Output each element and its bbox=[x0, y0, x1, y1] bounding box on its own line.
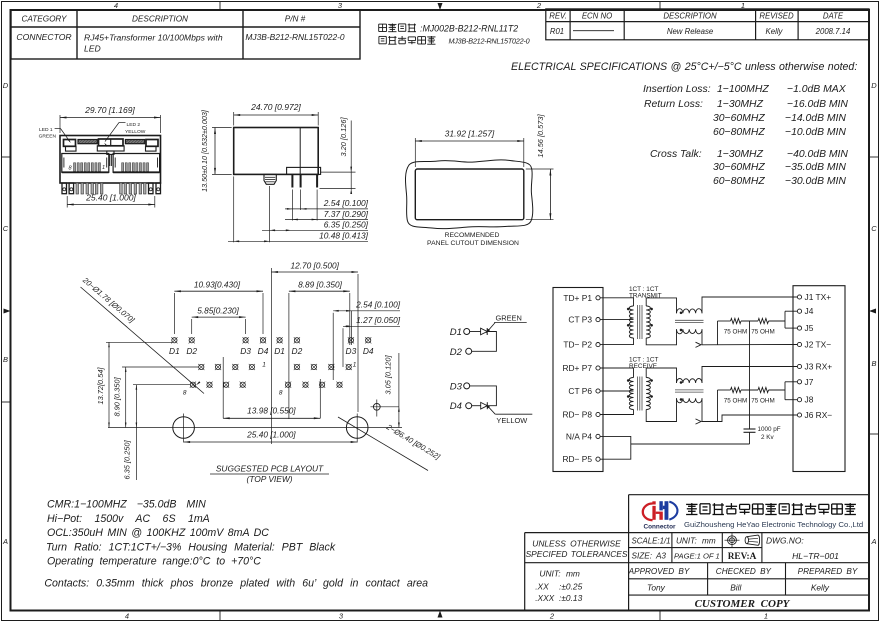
svg-text:SPECIFED TOLERANCES: SPECIFED TOLERANCES bbox=[526, 549, 628, 559]
transformer T2 core bbox=[637, 377, 639, 411]
svg-text:N/A P4: N/A P4 bbox=[566, 431, 592, 441]
svg-text:RD+ P7: RD+ P7 bbox=[562, 363, 592, 373]
svg-text:Tony: Tony bbox=[647, 583, 666, 593]
svg-text:GREEN: GREEN bbox=[39, 134, 57, 140]
svg-text:−40.0dB MIN: −40.0dB MIN bbox=[787, 149, 848, 160]
svg-text:D1: D1 bbox=[274, 346, 285, 356]
svg-text:ECN NO: ECN NO bbox=[582, 11, 612, 20]
tolerance box divider bbox=[525, 562, 629, 564]
J4 J5 bracket bbox=[784, 311, 786, 328]
svg-text:3.20 [0.126]: 3.20 [0.126] bbox=[339, 117, 348, 157]
zone tick marks right bbox=[869, 156, 879, 158]
front view dimension 25.40 bbox=[66, 196, 68, 208]
svg-text:2: 2 bbox=[549, 612, 555, 621]
GREEN label leader bbox=[486, 323, 495, 333]
pin labels J1-J8 bbox=[797, 295, 801, 299]
diode LED yellow symbol bbox=[481, 402, 488, 409]
svg-text:75 OHM: 75 OHM bbox=[724, 398, 747, 405]
svg-text:D3: D3 bbox=[450, 381, 463, 392]
wire P3 to T1 center tap bbox=[601, 319, 634, 321]
svg-text:13.72[0.54]: 13.72[0.54] bbox=[96, 367, 105, 405]
svg-text:2.54 [0.100]: 2.54 [0.100] bbox=[323, 198, 369, 208]
svg-text:J1 TX+: J1 TX+ bbox=[805, 292, 832, 302]
centering arrow bottom bbox=[438, 611, 443, 618]
pcb dimension 8.89 bbox=[288, 293, 290, 419]
wire choke L1 to J1 TX+ bbox=[702, 297, 797, 313]
side view pins bbox=[291, 174, 293, 187]
svg-text:5.85[0.230]: 5.85[0.230] bbox=[197, 306, 239, 316]
pcb chassis pad bbox=[373, 403, 380, 410]
svg-text:25.40 [1.000]: 25.40 [1.000] bbox=[85, 193, 136, 203]
svg-text:D3: D3 bbox=[240, 346, 251, 356]
svg-text:D4: D4 bbox=[450, 401, 462, 412]
wire center tap node to capacitor C1 bbox=[749, 321, 751, 429]
pcb dimension 5.85 bbox=[191, 319, 193, 334]
T1 polarity dots bbox=[627, 308, 629, 310]
svg-text:Kelly: Kelly bbox=[811, 583, 830, 593]
pcb signal pads row 2 bbox=[190, 382, 195, 387]
svg-text:CT P3: CT P3 bbox=[568, 315, 592, 325]
panel cutout dimension 14.56 bbox=[526, 168, 554, 170]
wire R4 to J7/J8 bracket bbox=[769, 389, 786, 391]
pcb dimension 12.70 bbox=[357, 274, 359, 412]
svg-text:ELECTRICAL SPECIFICATIONS @ 25: ELECTRICAL SPECIFICATIONS @ 25°C+/−5°C u… bbox=[511, 61, 857, 73]
svg-text:D2: D2 bbox=[450, 347, 463, 358]
svg-text:75 OHM: 75 OHM bbox=[751, 329, 774, 336]
svg-text:2.54 [0.100]: 2.54 [0.100] bbox=[355, 300, 401, 310]
pcb dimension 3.05 bbox=[398, 353, 400, 428]
svg-text:Kelly: Kelly bbox=[766, 27, 784, 36]
pcb center line vertical bbox=[270, 268, 272, 444]
choke L1 polarity dots bbox=[680, 312, 682, 314]
panel cutout blob outline bbox=[405, 160, 532, 229]
svg-text:PREPARED BY: PREPARED BY bbox=[798, 567, 858, 576]
svg-text:REV:A: REV:A bbox=[728, 552, 757, 562]
svg-text::±0.25: :±0.25 bbox=[559, 581, 583, 591]
svg-text:DWG.NO:: DWG.NO: bbox=[766, 536, 804, 546]
junction chevron RX bbox=[696, 419, 702, 424]
front view bottom pins bbox=[76, 183, 79, 194]
svg-text:10.93[0.430]: 10.93[0.430] bbox=[194, 280, 241, 290]
svg-text:J5: J5 bbox=[805, 323, 814, 333]
svg-text:D3: D3 bbox=[346, 346, 357, 356]
side view body outline bbox=[234, 128, 319, 175]
wire diode to D2 loop bbox=[471, 332, 496, 352]
svg-text:UNIT: mm: UNIT: mm bbox=[676, 537, 716, 546]
svg-text:CONNECTOR: CONNECTOR bbox=[16, 32, 71, 42]
front view left jack cavity bbox=[62, 154, 109, 173]
svg-text:4: 4 bbox=[125, 612, 129, 621]
svg-text:1000 pF: 1000 pF bbox=[758, 426, 781, 433]
svg-text:8: 8 bbox=[183, 390, 187, 397]
choke L1 top winding bbox=[677, 309, 703, 314]
svg-text:8: 8 bbox=[279, 390, 283, 397]
svg-text:2: 2 bbox=[536, 1, 542, 10]
wire diode to D4 bbox=[471, 405, 480, 407]
jack pin box (cable side) bbox=[793, 286, 845, 472]
svg-text:A: A bbox=[2, 537, 8, 546]
svg-text:10.48 [0.413]: 10.48 [0.413] bbox=[319, 231, 369, 241]
panel cutout dimension 31.92 bbox=[414, 138, 416, 167]
svg-text:CHECKED BY: CHECKED BY bbox=[716, 567, 772, 576]
svg-text:Return Loss:: Return Loss: bbox=[644, 99, 703, 110]
svg-text:D1: D1 bbox=[450, 327, 462, 338]
side view dimension 24.70 bbox=[233, 112, 235, 126]
svg-text:1−30MHZ: 1−30MHZ bbox=[717, 99, 764, 110]
svg-text:GuiZhousheng HeYao Electronic: GuiZhousheng HeYao Electronic Technology… bbox=[684, 520, 863, 529]
choke L2 core bbox=[675, 389, 704, 391]
svg-text:SCALE:1/1: SCALE:1/1 bbox=[632, 537, 671, 546]
svg-text:D: D bbox=[3, 81, 9, 90]
svg-text:LED: LED bbox=[84, 44, 101, 54]
svg-text:MJ3B-B212-RNL15T022-0: MJ3B-B212-RNL15T022-0 bbox=[245, 32, 344, 42]
svg-text:GREEN: GREEN bbox=[496, 313, 522, 322]
svg-text:6.35 [0.250]: 6.35 [0.250] bbox=[123, 440, 132, 480]
svg-text:C: C bbox=[871, 224, 877, 233]
svg-text:LED 1: LED 1 bbox=[39, 127, 53, 133]
svg-text:3.05 [0.120]: 3.05 [0.120] bbox=[384, 355, 393, 395]
svg-text:DESCRIPTION: DESCRIPTION bbox=[663, 11, 717, 20]
wire P8 to T2 primary bottom bbox=[601, 410, 634, 415]
pcb dimension 6.35 vertical bbox=[133, 384, 191, 386]
svg-text:1: 1 bbox=[353, 362, 357, 369]
svg-text:RD− P8: RD− P8 bbox=[562, 410, 592, 420]
svg-text:1: 1 bbox=[102, 165, 105, 171]
note original part number (Chinese) bbox=[379, 23, 387, 25]
svg-text:D4: D4 bbox=[363, 346, 374, 356]
company name Chinese bbox=[686, 503, 697, 505]
svg-text:MJ3B-B212-RNL15T022-0: MJ3B-B212-RNL15T022-0 bbox=[449, 37, 530, 46]
svg-text:60−80MHZ: 60−80MHZ bbox=[713, 176, 765, 187]
svg-text::MJ002B-B212-RNL11T2: :MJ002B-B212-RNL11T2 bbox=[420, 24, 518, 34]
svg-text:Hi−Pot: 1500v AC 6S 1mA: Hi−Pot: 1500v AC 6S 1mA bbox=[47, 513, 210, 525]
wire choke L1 bottom to J2 TX- bbox=[702, 329, 797, 345]
pcb dimension 8.90 vertical bbox=[122, 366, 199, 368]
svg-text:75 OHM: 75 OHM bbox=[751, 398, 774, 405]
wire R2 to J4/J5 bracket bbox=[769, 320, 786, 322]
svg-text:14.56 [0.573]: 14.56 [0.573] bbox=[536, 113, 545, 157]
front view dimension 29.70 bbox=[59, 115, 61, 133]
front view right cavity contacts bbox=[122, 163, 124, 172]
junction chevron TX bbox=[696, 342, 702, 347]
choke L2 bottom winding bbox=[677, 398, 703, 403]
zone tick marks top bbox=[219, 2, 221, 11]
wire D1 to diode bbox=[469, 331, 480, 333]
wire T1 secondary bottom to choke L1 bottom bbox=[646, 329, 676, 345]
front view body outline bbox=[60, 136, 161, 184]
svg-text:1−100MHZ: 1−100MHZ bbox=[717, 84, 769, 95]
wire P6 to T2 center tap bbox=[601, 390, 634, 392]
svg-text:6.35 [0.250]: 6.35 [0.250] bbox=[324, 220, 369, 230]
side view pin extension lines bbox=[291, 190, 293, 221]
resistor R3 75 OHM bbox=[718, 389, 731, 391]
wire T2 secondary top to choke L2 bbox=[646, 368, 676, 383]
front view left shield hatch bbox=[78, 140, 97, 144]
svg-text:YELLOW: YELLOW bbox=[496, 416, 527, 425]
svg-text:Contacts: 0.35mm thick phos br: Contacts: 0.35mm thick phos bronze plate… bbox=[44, 578, 428, 590]
svg-text:.XXX: .XXX bbox=[535, 593, 554, 603]
side view latch post bbox=[264, 174, 276, 184]
svg-text:30−60MHZ: 30−60MHZ bbox=[713, 162, 765, 173]
svg-text:PAGE:1 OF 1: PAGE:1 OF 1 bbox=[674, 552, 720, 561]
svg-text:Turn Ratio: 1CT:1CT+/−3% Hou: Turn Ratio: 1CT:1CT+/−3% Housing Materia… bbox=[46, 541, 336, 553]
svg-text:Bill: Bill bbox=[730, 583, 742, 593]
svg-text:(TOP VIEW): (TOP VIEW) bbox=[246, 474, 292, 484]
svg-text:REVISED: REVISED bbox=[759, 11, 794, 20]
svg-text:J8: J8 bbox=[805, 395, 814, 405]
svg-text:RD− P5: RD− P5 bbox=[562, 454, 592, 464]
front view center window (LED 2) bbox=[99, 139, 124, 146]
svg-text:30−60MHZ: 30−60MHZ bbox=[713, 113, 765, 124]
svg-text:D1: D1 bbox=[169, 346, 180, 356]
svg-text:−16.0dB MIN: −16.0dB MIN bbox=[787, 99, 848, 110]
wire R3 to R4 bbox=[741, 389, 758, 391]
svg-text:25.40 [1.000]: 25.40 [1.000] bbox=[246, 429, 296, 439]
svg-text:60−80MHZ: 60−80MHZ bbox=[713, 127, 765, 138]
wire choke L2 to J3 RX+ bbox=[702, 367, 797, 384]
svg-text:RECOMMENDED: RECOMMENDED bbox=[445, 232, 500, 239]
wire P4 P5 common to capacitor bbox=[601, 436, 631, 459]
pcb dimension 1.27 bbox=[342, 328, 344, 367]
wire choke L2 bottom to J6 RX- bbox=[702, 398, 797, 421]
svg-text:B: B bbox=[871, 359, 876, 368]
svg-text:SIZE: A3: SIZE: A3 bbox=[632, 552, 667, 561]
front view latch slot bbox=[109, 154, 111, 166]
front view bottom mounting posts bbox=[62, 183, 67, 194]
svg-text:2008.7.14: 2008.7.14 bbox=[815, 27, 851, 36]
transformer T1 secondary winding bbox=[646, 306, 650, 338]
svg-text:D4: D4 bbox=[258, 346, 269, 356]
side view dimension 2.54 bbox=[285, 208, 368, 210]
choke L2 top winding bbox=[677, 379, 703, 384]
svg-text:Connector: Connector bbox=[644, 523, 676, 530]
svg-text:REV.: REV. bbox=[549, 11, 567, 20]
transformer T1 core bbox=[637, 305, 639, 339]
svg-text:P/N #: P/N # bbox=[285, 15, 306, 24]
pcb hole leader 2-dia6.40 bbox=[338, 417, 428, 471]
svg-text:TD+ P1: TD+ P1 bbox=[563, 293, 592, 303]
svg-text:−14.0dB MIN: −14.0dB MIN bbox=[785, 113, 846, 124]
svg-text:RJ45+Transformer 10/100Mbps wi: RJ45+Transformer 10/100Mbps with bbox=[84, 33, 223, 43]
J7 J8 bracket bbox=[784, 382, 786, 400]
svg-text:CMR:1−100MHZ −35.0dB MIN: CMR:1−100MHZ −35.0dB MIN bbox=[47, 499, 206, 511]
side view dimension 10.48 bbox=[228, 240, 368, 242]
svg-text:LED 2: LED 2 bbox=[127, 122, 141, 128]
svg-text:DATE: DATE bbox=[823, 11, 844, 20]
svg-text:Cross Talk:: Cross Talk: bbox=[650, 149, 702, 160]
svg-text:2 Kv: 2 Kv bbox=[761, 434, 774, 441]
front view right LED window bbox=[146, 140, 158, 147]
side view bottom ledge bbox=[287, 167, 321, 174]
svg-text:8.90 [0.350]: 8.90 [0.350] bbox=[113, 377, 122, 417]
svg-text:A: A bbox=[870, 537, 876, 546]
svg-text:8.89 [0.350]: 8.89 [0.350] bbox=[298, 280, 343, 290]
projection symbols bbox=[728, 536, 737, 545]
centering arrow right bbox=[869, 309, 876, 314]
zone tick marks left bbox=[2, 156, 11, 158]
pcb mounting holes 2x 6.40 bbox=[173, 417, 195, 439]
diode LED green symbol bbox=[481, 328, 488, 335]
choke L2 polarity dots bbox=[680, 381, 682, 383]
svg-text:R01: R01 bbox=[550, 27, 564, 36]
T2 polarity dots bbox=[627, 379, 629, 381]
svg-text:J2 TX−: J2 TX− bbox=[805, 340, 832, 350]
transformer T2 secondary winding bbox=[646, 378, 650, 410]
svg-text:DESCRIPTION: DESCRIPTION bbox=[132, 15, 188, 24]
side view dimension 13.50 bbox=[212, 127, 232, 129]
svg-text:−35.0dB MIN: −35.0dB MIN bbox=[785, 162, 846, 173]
svg-text:J3 RX+: J3 RX+ bbox=[805, 362, 833, 372]
wire T2 secondary bottom bbox=[646, 398, 676, 421]
connector pin box (plug side) bbox=[553, 288, 603, 472]
wire TX termination tap bbox=[717, 321, 719, 345]
svg-text:HL−TR−001: HL−TR−001 bbox=[792, 551, 839, 561]
wire P7 to T2 primary top bbox=[601, 368, 634, 378]
svg-text::±0.13: :±0.13 bbox=[559, 593, 583, 603]
svg-text:−10.0dB MIN: −10.0dB MIN bbox=[785, 127, 846, 138]
svg-text:−30.0dB MIN: −30.0dB MIN bbox=[785, 176, 846, 187]
pcb hole leader 20-dia1.78 bbox=[81, 287, 205, 394]
zone tick marks bottom bbox=[219, 611, 221, 621]
svg-text:CT P6: CT P6 bbox=[568, 386, 592, 396]
capacitor C1 1000pF 2Kv bbox=[744, 428, 756, 430]
transformer T2 primary winding bbox=[629, 378, 633, 410]
side view dimension 7.37 bbox=[285, 219, 368, 221]
wire RX termination tap bbox=[717, 390, 719, 422]
pcb hole centerline horizontal bbox=[108, 427, 402, 429]
svg-text:TD− P2: TD− P2 bbox=[563, 340, 592, 350]
transformer T1 primary winding bbox=[629, 306, 633, 338]
svg-text:Operating temperature range:0°: Operating temperature range:0°C to +70°C bbox=[47, 556, 261, 568]
svg-text:1.27 [0.050]: 1.27 [0.050] bbox=[356, 315, 401, 325]
front view right shield hatch bbox=[125, 140, 144, 144]
pcb dimension 25.40 bbox=[184, 441, 358, 443]
svg-text:B: B bbox=[3, 355, 8, 364]
svg-text:PANEL CUTOUT DIMENSION: PANEL CUTOUT DIMENSION bbox=[427, 240, 519, 247]
pcb LED pin pads D1-D4 left and right bbox=[172, 338, 177, 343]
note changed part number (Chinese) bbox=[378, 36, 380, 43]
choke L1 core bbox=[675, 319, 704, 321]
svg-text:CATEGORY: CATEGORY bbox=[21, 15, 67, 24]
panel cutout rectangle bbox=[415, 169, 524, 220]
YELLOW label leader bbox=[487, 405, 496, 414]
svg-text:OCL:350uH MIN @ 100KHZ 100mV 8: OCL:350uH MIN @ 100KHZ 100mV 8mA DC bbox=[47, 527, 269, 539]
company logo mark bbox=[643, 504, 653, 521]
resistor R4 75 OHM bbox=[758, 387, 769, 392]
svg-text:YELLOW: YELLOW bbox=[125, 129, 146, 135]
svg-text:13.50±0.10 [0.532±0.003]: 13.50±0.10 [0.532±0.003] bbox=[200, 109, 209, 192]
title block outline bbox=[629, 494, 869, 496]
side view dimension 3.20 bbox=[321, 171, 356, 173]
svg-text:24.70 [0.972]: 24.70 [0.972] bbox=[250, 102, 301, 112]
centering arrow top bbox=[438, 3, 443, 10]
svg-text:1: 1 bbox=[764, 612, 768, 621]
svg-text:UNIT: mm: UNIT: mm bbox=[539, 568, 580, 578]
wire R1 to R2 bbox=[741, 320, 758, 322]
front view right jack cavity bbox=[113, 154, 160, 173]
svg-text:.XX: .XX bbox=[535, 581, 549, 591]
svg-text:D: D bbox=[871, 81, 877, 90]
svg-text:4: 4 bbox=[114, 1, 118, 10]
svg-text:D2: D2 bbox=[186, 346, 197, 356]
pcb signal pads row 1 bbox=[199, 364, 204, 369]
svg-text:75 OHM: 75 OHM bbox=[724, 329, 747, 336]
svg-text:APPROVED BY: APPROVED BY bbox=[628, 567, 690, 576]
svg-text:13.98 [0.550]: 13.98 [0.550] bbox=[247, 406, 296, 416]
front view left cavity contacts bbox=[74, 163, 76, 172]
svg-text:12.70 [0.500]: 12.70 [0.500] bbox=[290, 261, 339, 271]
svg-text:J7: J7 bbox=[805, 377, 814, 387]
svg-text:D2: D2 bbox=[292, 346, 303, 356]
pcb dimension 10.93 bbox=[173, 293, 175, 334]
svg-text:Insertion Loss:: Insertion Loss: bbox=[643, 84, 711, 95]
resistor R2 75 OHM bbox=[758, 318, 769, 323]
svg-text:7.37 [0.290]: 7.37 [0.290] bbox=[324, 209, 369, 219]
svg-text:SUGGESTED PCB LAYOUT: SUGGESTED PCB LAYOUT bbox=[216, 464, 324, 474]
centering arrow left bbox=[4, 309, 11, 314]
wire P2 to T1 primary bottom bbox=[601, 338, 634, 345]
svg-text:J4: J4 bbox=[805, 306, 814, 316]
title block column lines bbox=[671, 533, 673, 563]
revision table grid bbox=[546, 9, 869, 40]
svg-text:New Release: New Release bbox=[667, 27, 714, 36]
wire D3 to D4 loop bbox=[469, 386, 496, 406]
svg-text:UNLESS OTHERWISE: UNLESS OTHERWISE bbox=[532, 538, 621, 548]
title block row lines bbox=[629, 547, 762, 549]
front view left LED window bbox=[64, 140, 76, 147]
svg-text:−1.0dB MAX: −1.0dB MAX bbox=[787, 84, 847, 95]
pcb dimension 13.98 bbox=[222, 357, 224, 418]
category table grid bbox=[11, 10, 360, 59]
svg-text:29.70 [1.169]: 29.70 [1.169] bbox=[84, 105, 135, 115]
resistor R1 75 OHM bbox=[718, 320, 731, 322]
pcb dimension 2.54 top right bbox=[332, 313, 334, 380]
svg-text:CUSTOMER COPY: CUSTOMER COPY bbox=[695, 598, 791, 610]
wire P1 to T1 primary top bbox=[601, 298, 634, 306]
svg-text:31.92 [1.257]: 31.92 [1.257] bbox=[445, 129, 495, 139]
pcb dimension 13.72 vertical bbox=[106, 341, 172, 343]
svg-text:1−30MHZ: 1−30MHZ bbox=[717, 149, 764, 160]
svg-text:J6 RX−: J6 RX− bbox=[805, 410, 833, 420]
wire T1 secondary top to choke L1 bbox=[646, 298, 676, 313]
svg-text:C: C bbox=[3, 224, 9, 233]
side view dimension 6.35 bbox=[262, 229, 368, 231]
svg-text:1: 1 bbox=[262, 362, 266, 369]
choke L1 bottom winding bbox=[677, 329, 703, 334]
